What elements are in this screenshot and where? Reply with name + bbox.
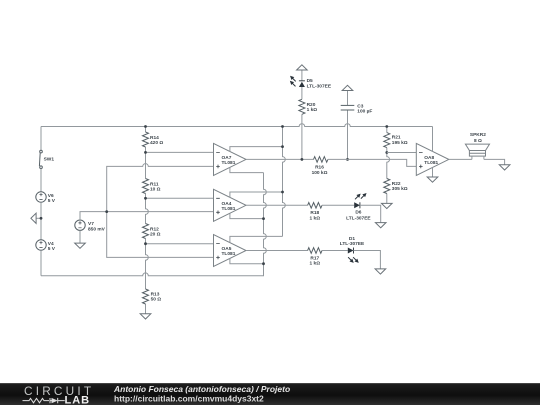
node dot on OA7 output xyxy=(301,158,304,161)
svg-text:10 Ω: 10 Ω xyxy=(150,186,161,192)
switch SW1 xyxy=(39,150,54,168)
resistor R16 xyxy=(312,157,328,176)
ground (left pointing) at V6/V4 junction xyxy=(31,213,41,223)
svg-text:D5: D5 xyxy=(307,78,313,84)
CircuitLab logo xyxy=(23,384,95,405)
capacitor C3 xyxy=(341,103,373,114)
ground right of D6 xyxy=(375,223,386,228)
svg-text:TL081: TL081 xyxy=(222,251,236,257)
wire OA7 output xyxy=(246,158,314,160)
svg-text:TL081: TL081 xyxy=(424,160,438,166)
LED D5 xyxy=(288,74,331,89)
voltage source V6 xyxy=(36,192,56,204)
wire C3 branch vertical xyxy=(347,91,349,160)
svg-text:SW1: SW1 xyxy=(44,156,55,162)
LED D6 xyxy=(346,192,371,222)
svg-text:1 kΩ: 1 kΩ xyxy=(307,107,318,113)
resistor R11 xyxy=(143,179,161,194)
node dot R21/R22/OA8- junction xyxy=(385,151,388,154)
wire V4 to bottom bus xyxy=(40,250,42,276)
wire SW1 to V6 xyxy=(40,169,42,192)
svg-text:R21: R21 xyxy=(392,135,401,141)
wire chain tap to OA5 minus xyxy=(146,243,214,245)
node dot rail/bus xyxy=(281,125,284,128)
svg-text:C3: C3 xyxy=(357,103,363,109)
svg-text:OA8: OA8 xyxy=(424,155,434,161)
node dot on R16 output line xyxy=(346,158,349,161)
node dot chain top xyxy=(144,125,147,128)
svg-text:R18: R18 xyxy=(310,210,319,216)
resistor R22 xyxy=(384,179,408,194)
wire V7 bottom to ground xyxy=(79,230,81,243)
wire OA7 V+ pin to rail xyxy=(230,147,283,152)
node dot OA4 V- xyxy=(262,217,265,220)
svg-text:LTL-307EE: LTL-307EE xyxy=(307,83,332,89)
node dot V7 feed xyxy=(105,210,108,213)
LED D1 xyxy=(340,236,365,264)
node dot R21 top on bus xyxy=(385,125,388,128)
wire OA8 V- pin to ground xyxy=(432,167,434,176)
svg-text:100 µF: 100 µF xyxy=(357,109,372,115)
op-amp OA4 xyxy=(214,189,247,221)
svg-text:TL081: TL081 xyxy=(222,160,236,166)
footer text xyxy=(113,384,290,404)
svg-text:5 V: 5 V xyxy=(48,246,56,252)
svg-text:1 kΩ: 1 kΩ xyxy=(310,261,321,267)
svg-text:1 kΩ: 1 kΩ xyxy=(310,215,321,221)
op-amp OA7 xyxy=(214,143,247,175)
svg-text:195 kΩ: 195 kΩ xyxy=(392,140,408,146)
node dot xyxy=(144,151,147,154)
svg-text:Antonio Fonseca (antoniofonsec: Antonio Fonseca (antoniofonseca) / Proje… xyxy=(113,384,290,394)
svg-text:20 Ω: 20 Ω xyxy=(150,231,161,237)
node dot xyxy=(144,242,147,245)
node junction dot V6-/V4+ xyxy=(40,217,43,220)
svg-text:LTL-307EE: LTL-307EE xyxy=(346,216,371,222)
svg-text:OA5: OA5 xyxy=(222,246,232,252)
node dot OA4 V+ xyxy=(281,191,284,194)
wire OA5 output to R17 xyxy=(246,250,308,252)
svg-text:V4: V4 xyxy=(48,241,54,247)
svg-text:305 kΩ: 305 kΩ xyxy=(392,186,408,192)
wire OA4 V- pin to negative rail xyxy=(230,213,264,218)
wire OA8 output to speaker xyxy=(449,158,472,160)
ground right of D1 xyxy=(375,269,386,274)
resistor R17 xyxy=(308,248,322,267)
wire chain tap to OA4 minus xyxy=(146,197,214,199)
voltage source V4 xyxy=(36,240,56,252)
svg-text:850 mV: 850 mV xyxy=(88,226,106,232)
node dot OA5 V- xyxy=(262,262,265,265)
svg-text:R17: R17 xyxy=(310,255,319,261)
wire OA5 V- pin to negative rail xyxy=(230,258,264,263)
wire OA8 V+ pin to top bus xyxy=(432,127,434,152)
svg-text:5 V: 5 V xyxy=(48,198,56,204)
svg-text:8 Ω: 8 Ω xyxy=(474,138,482,144)
wire OA5 V+ pin to rail xyxy=(230,236,283,242)
ground above C3 xyxy=(342,85,353,90)
wire R21/R22 branch xyxy=(387,127,390,204)
wire top positive supply bus xyxy=(41,124,433,127)
svg-text:SPKR2: SPKR2 xyxy=(470,132,486,138)
wire D6 to ground xyxy=(360,205,381,222)
svg-text:TL081: TL081 xyxy=(222,206,236,212)
wire OA4 V+ pin to rail xyxy=(230,192,283,197)
wire chain tap to OA7 minus xyxy=(146,151,214,153)
ground above D5 xyxy=(297,65,308,70)
wire resistor-chain vertical with hops xyxy=(146,127,149,314)
svg-text:OA4: OA4 xyxy=(222,201,232,207)
wire left rail upper segment xyxy=(40,127,42,151)
wire plus-input rail (OA7+ / OA5+ loop) xyxy=(107,164,214,258)
svg-text:420 Ω: 420 Ω xyxy=(150,140,163,146)
wire R16 to OA8 plus xyxy=(328,159,416,166)
svg-text:R22: R22 xyxy=(392,181,401,187)
wire OA7 V- pin to negative rail xyxy=(230,167,264,172)
resistor R12 xyxy=(143,224,161,239)
resistor R18 xyxy=(308,203,322,222)
op-amp OA5 xyxy=(214,235,247,267)
wire negative rail vertical x=263.5 xyxy=(264,173,267,276)
node dot OA7 V+ xyxy=(281,145,284,148)
ground below OA8 xyxy=(427,177,438,182)
svg-text:V7: V7 xyxy=(88,221,94,227)
wire V7 top to plus-input distribution xyxy=(80,212,214,220)
resistor R21 xyxy=(384,133,408,148)
resistor R20 xyxy=(299,99,317,114)
svg-text:LAB: LAB xyxy=(65,394,91,405)
wire OA4 output to R18 xyxy=(246,204,308,206)
ground below V7 xyxy=(75,243,86,248)
ground below R22 xyxy=(382,203,393,208)
svg-text:100 kΩ: 100 kΩ xyxy=(312,170,328,176)
svg-text:R16: R16 xyxy=(315,164,324,170)
wire R18 to D6 xyxy=(322,204,354,206)
ground below R13 xyxy=(140,314,151,319)
resistor R14 xyxy=(143,132,164,147)
wire bottom negative bus xyxy=(41,264,264,276)
ground right of speaker xyxy=(499,165,510,170)
svg-text:http://circuitlab.com/cmvmu4dy: http://circuitlab.com/cmvmu4dys3xt2 xyxy=(114,394,264,404)
svg-text:V6: V6 xyxy=(48,193,54,199)
op-amp OA8 xyxy=(416,143,449,175)
wire positive rail vertical x=282.5 xyxy=(283,127,286,237)
svg-text:D1: D1 xyxy=(349,236,355,242)
wire V6 to V4 with ground tap xyxy=(40,202,42,240)
svg-text:R20: R20 xyxy=(307,102,316,108)
svg-text:D6: D6 xyxy=(355,209,361,215)
wire junction to OA8 minus xyxy=(387,152,417,154)
svg-text:50 Ω: 50 Ω xyxy=(151,296,162,302)
voltage source V7 xyxy=(75,220,106,232)
wire R17 to D1 xyxy=(322,250,348,252)
speaker SPKR2 xyxy=(465,132,489,159)
resistor R13 xyxy=(143,289,162,304)
svg-text:LTL-307EE: LTL-307EE xyxy=(340,241,365,247)
node dot xyxy=(144,197,147,200)
wire speaker to ground xyxy=(484,159,505,164)
wire D1 to ground xyxy=(354,251,381,269)
wire D5/R20 branch vertical xyxy=(301,70,303,159)
svg-text:OA7: OA7 xyxy=(222,155,232,161)
